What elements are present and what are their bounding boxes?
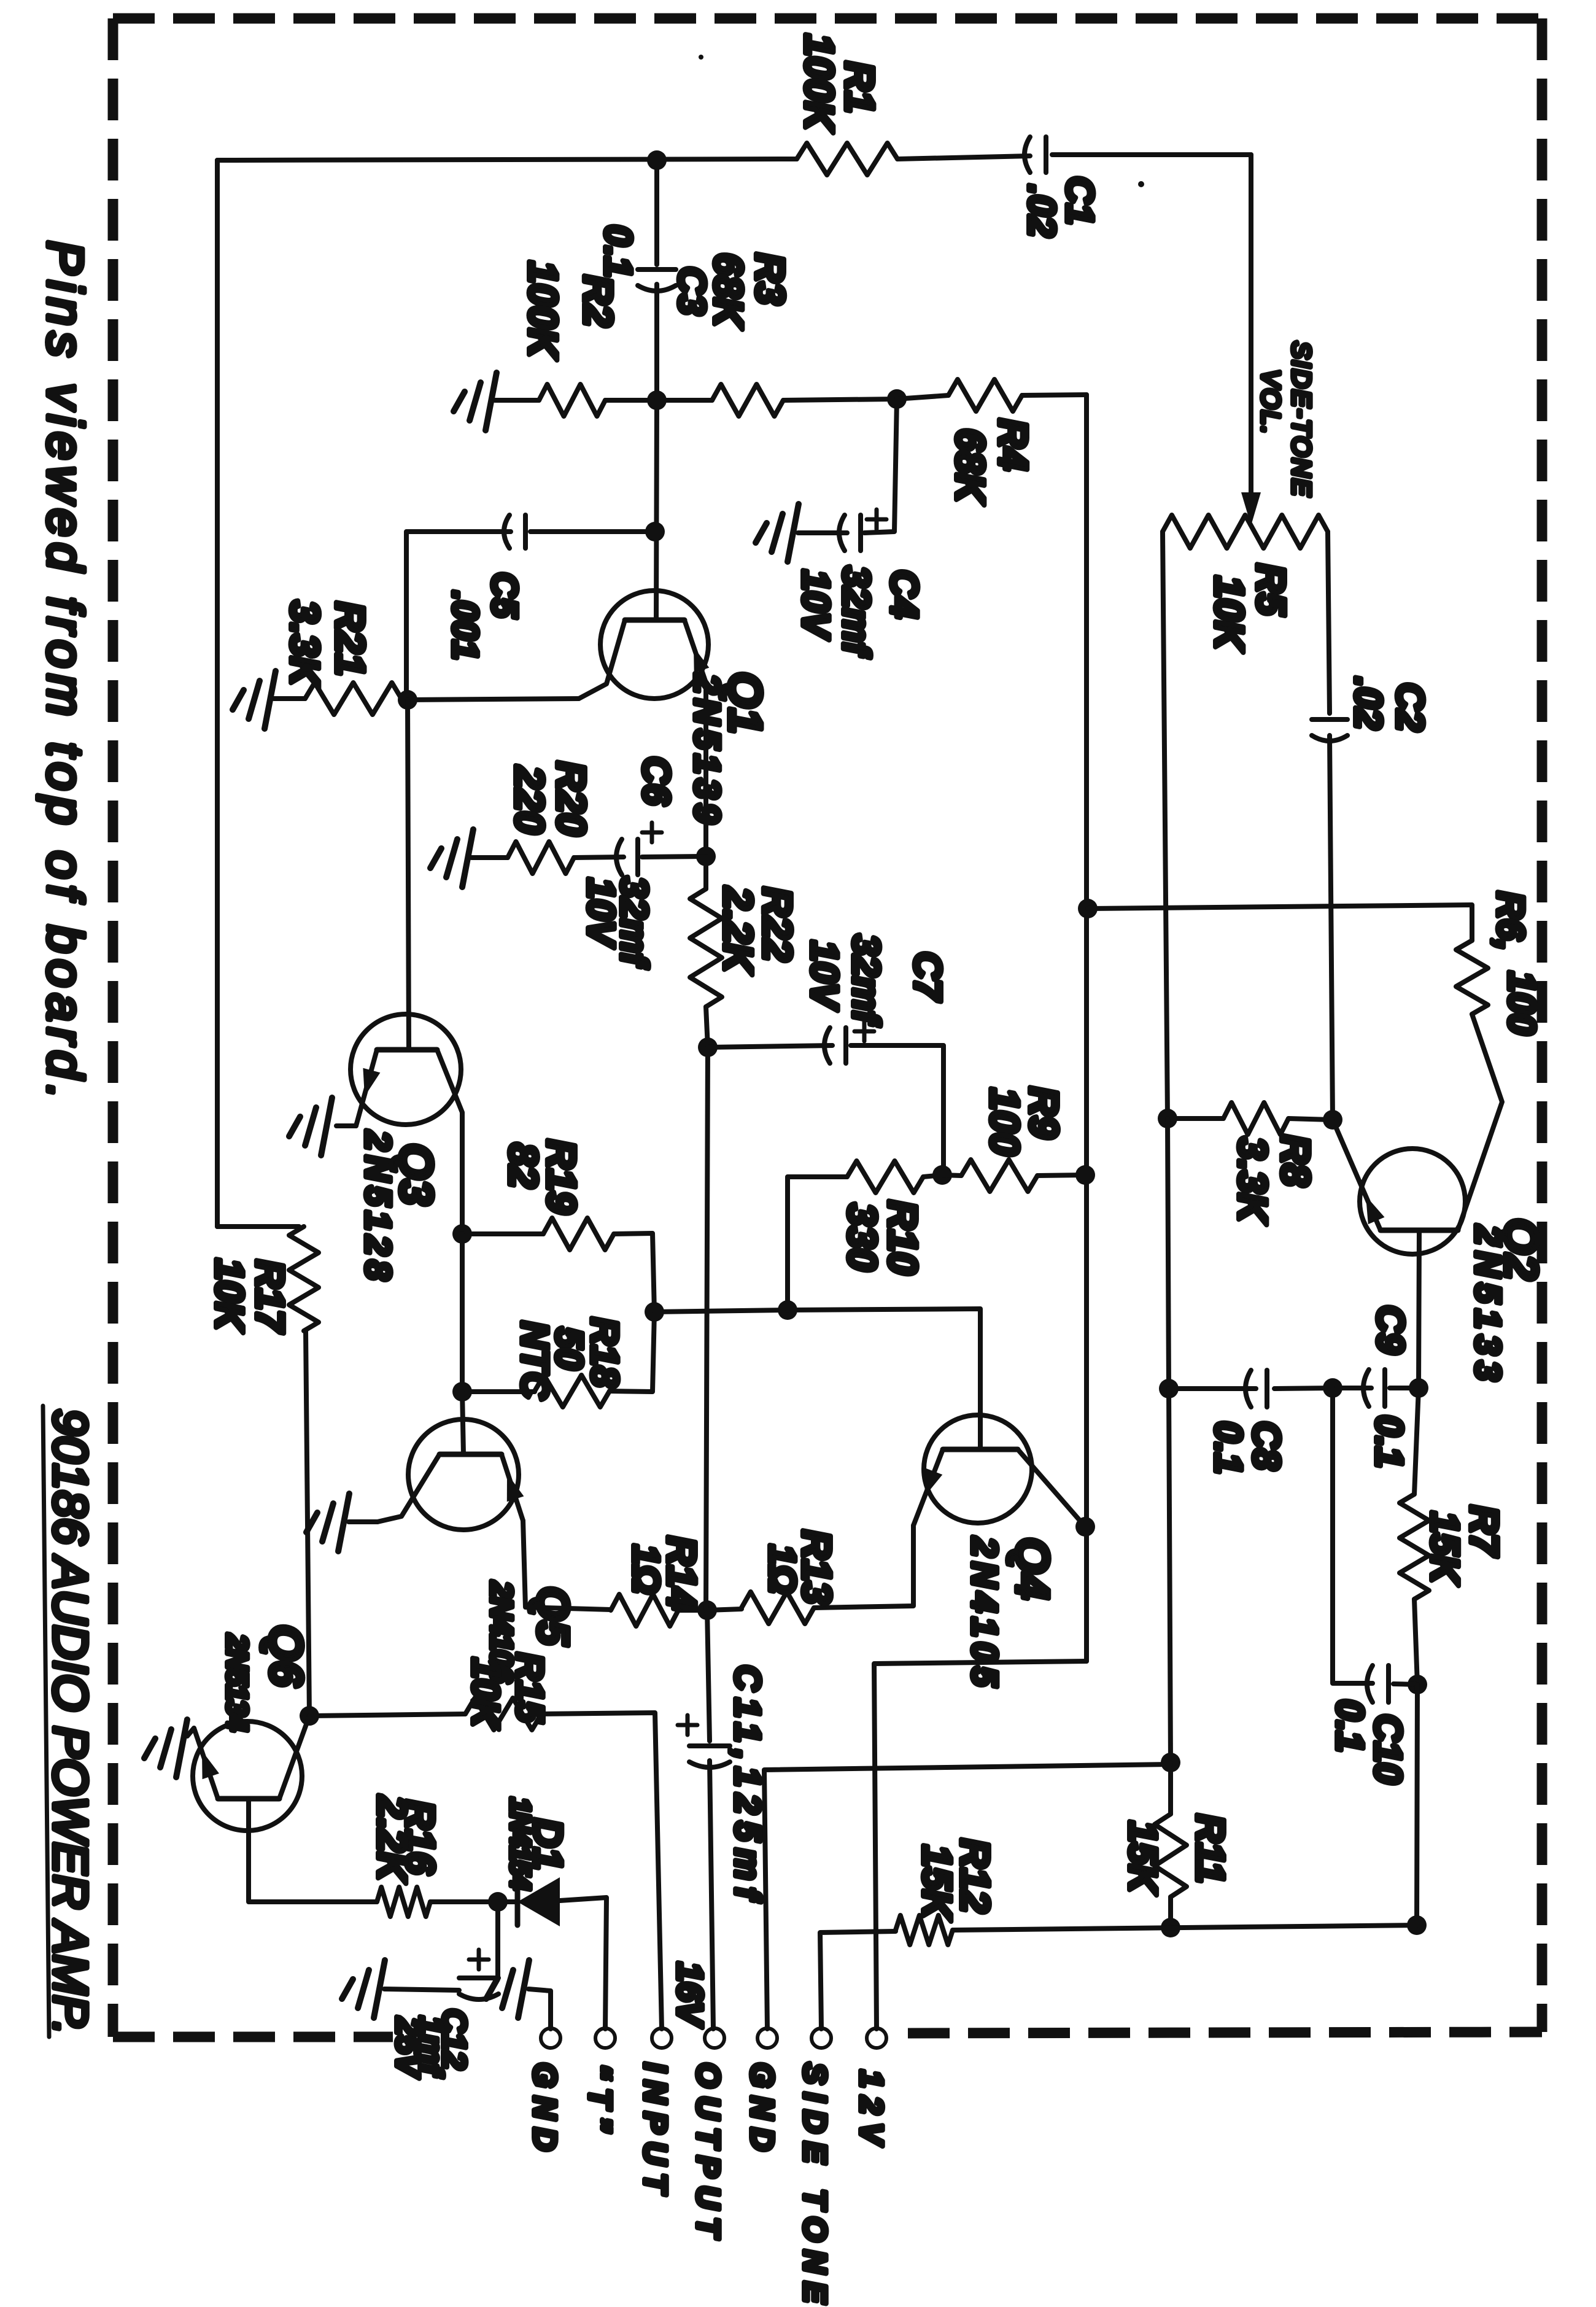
resistor R14 [611,1594,678,1626]
wire C7 to R9/R10 node [851,1045,943,1175]
svg-text:12V: 12V [853,2070,889,2153]
scan speck artifacts [1138,181,1144,187]
svg-text:32mf: 32mf [835,566,877,658]
svg-text:68K: 68K [948,428,993,505]
wire C11 line down from R13/R14 node [707,1610,710,1741]
node R3/R4 junction dot [887,389,907,409]
svg-text:90186 AUDIO POWER AMP.: 90186 AUDIO POWER AMP. [44,1409,98,2035]
svg-text:16V: 16V [670,1962,710,2028]
wire: Q3 base lead [408,700,409,1050]
wire R15 to INPUT riser [541,1713,662,2029]
capacitor C12 polarized [459,1975,498,1980]
svg-text:68K: 68K [706,253,751,330]
wire R17 down to Q6 collector node [306,1331,309,1716]
wire node to C5 [530,529,655,534]
wire C3 to R2/R3 node [654,284,659,400]
svg-text:NTC: NTC [513,1321,556,1400]
capacitor C10 [1367,1665,1373,1702]
node C9 right junction dot [1409,1378,1428,1398]
ground for R20 [462,829,473,887]
wire SIDE TONE riser to R12 row [820,1931,896,2029]
wire pot right end down to C2 [1328,532,1330,713]
svg-text:15K: 15K [1423,1511,1467,1586]
node C10 right junction dot [1408,1675,1427,1694]
node C6/R20 junction dot [696,847,716,866]
wire C12 to ground [384,1989,459,1990]
svg-text:GND: GND [527,2063,562,2160]
resistor R7 [1414,1388,1419,1494]
svg-text:0.1: 0.1 [1368,1415,1410,1468]
wire ground to R2 [495,398,539,403]
svg-text:R5: R5 [1249,564,1294,616]
node Q4 collector junction dot [1075,1517,1095,1537]
wire Q6 emitter to ground [187,1728,194,1736]
resistor R2 [539,384,605,416]
wire ground rail from R8 left down [1168,1119,1169,1389]
capacitor C5 branch node dot [645,522,665,541]
svg-text:OUTPUT: OUTPUT [690,2063,726,2246]
potentiometer R5 [1163,515,1328,548]
node R22/C7/input junction dot [698,1037,718,1057]
title underline [43,1406,49,2037]
transistor Q4 2N4105 [924,1415,1032,1523]
svg-text:2N4105: 2N4105 [964,1537,1004,1691]
node R18/R19 right junction dot [645,1302,664,1322]
capacitor C3 [638,267,676,272]
svg-text:.02: .02 [1020,184,1063,237]
resistor R18 NTC [462,1389,535,1394]
diode D1 1N4154 [515,1879,521,1925]
svg-text:10K: 10K [207,1258,252,1333]
terminal GND 2 [757,2028,777,2048]
node D1/R16/C12 junction dot [488,1892,508,1912]
dashed border frame (decorative) [113,18,1542,2037]
transistor Q2 2N5133 [1360,1149,1465,1254]
node R12 wire right junction dot [1407,1915,1427,1935]
svg-text:100K: 100K [521,261,566,360]
wire R10 riser [788,1177,847,1310]
svg-text:2N5134: 2N5134 [220,1634,253,1731]
wire R7/C10 line down to R12 wire [1417,1685,1417,1925]
node R8 left junction dot [1158,1109,1177,1128]
svg-text:1N4154: 1N4154 [505,1797,537,1890]
svg-text:Q4: Q4 [1006,1537,1058,1599]
ground for Q3 emitter [321,1098,332,1155]
resistor R3 [657,398,712,403]
resistor R4 [948,379,1022,411]
svg-text:C4: C4 [883,570,925,618]
wire: main top rail from corner to R1 [217,159,797,160]
resistor R10 [847,1161,923,1193]
wire: C3 branch down from node A [654,160,659,265]
wire: left rail down [215,160,220,1227]
svg-text:100: 100 [1500,971,1543,1034]
svg-text:C5: C5 [484,572,524,618]
svg-text:R2: R2 [576,275,621,327]
wire Q3 collector to Q5 base [460,1234,465,1392]
wire R15 row from Q6 node to INPUT corner [309,1714,465,1716]
capacitor C9 [1333,1386,1371,1390]
svg-text:2.2K: 2.2K [370,1794,415,1884]
svg-text:R17: R17 [248,1260,292,1334]
wire 12V riser [874,1661,1087,2029]
wire ground rail down to C10 corner [1169,1389,1171,1762]
node R18 left junction dot [452,1382,472,1402]
wire left rail corner to R17 [217,1224,299,1229]
sidetone wiper arrow [1241,492,1261,525]
wire from R1 to C1 [897,156,1030,159]
wire GND1 to chassis ground [529,1989,551,2029]
transistor Q3 2N5128 [351,1014,461,1125]
node C8 left junction dot [1159,1379,1179,1398]
svg-text:.02: .02 [1347,677,1389,729]
svg-text:220: 220 [507,765,552,834]
wire: 12V rail vertical [1084,395,1089,1661]
wire C2-line down to C10 [1333,1388,1373,1683]
svg-text:10V: 10V [579,878,622,948]
wire: R6 feed from 12V rail [1088,905,1472,940]
resistor R13 [707,1609,742,1610]
svg-text:100K: 100K [797,34,842,133]
wire R16 to D1 node [430,1899,498,1904]
svg-text:Pins viewed from top of board.: Pins viewed from top of board. [37,241,93,1105]
ground for GND1 terminal [518,1960,529,2018]
wire R4 to 12V rail corner [1022,395,1087,395]
wire ground to R20 [471,855,508,860]
svg-text:32mf: 32mf [845,934,887,1026]
wire R20 to C6 [574,857,624,858]
node R2/R3 junction dot [647,390,667,410]
wire R13 to Q4 emitter riser [814,1526,913,1608]
node R9/R10/C7 junction dot [932,1165,952,1185]
svg-text:R1: R1 [837,61,883,113]
wire R3 to R3/R4 node [783,399,897,400]
svg-text:SIDE-TONE: SIDE-TONE [1287,341,1316,498]
svg-text:R3: R3 [748,253,793,304]
ground for R21 [265,671,276,729]
wire GND2 riser and ground bus [764,1764,1171,2029]
terminal T [595,2028,615,2048]
node R11 bottom junction dot [1161,1918,1180,1937]
svg-text:C8: C8 [1245,1421,1287,1470]
resistor R12 [896,1915,953,1945]
svg-text:SIDE TONE: SIDE TONE [797,2063,832,2307]
svg-text:10V: 10V [794,570,837,640]
node R9/12V rail junction dot [1075,1165,1095,1185]
svg-text:C7: C7 [906,952,948,1002]
wire R6 to Q2 collector [1458,1014,1502,1230]
wire Q1 emitter down [703,683,708,856]
resistor R8 [1168,1116,1223,1121]
ground for Q5 emitter [338,1494,349,1551]
svg-text:.001: .001 [445,591,485,660]
svg-text:100: 100 [982,1088,1028,1155]
capacitor C1 [1025,137,1030,173]
terminal OUTPUT [705,2028,724,2048]
node C8/C9 junction dot [1323,1378,1342,1398]
svg-text:C6: C6 [635,756,677,805]
svg-text:3.3K: 3.3K [282,600,328,689]
svg-text:1Ω: 1Ω [626,1545,667,1594]
svg-text:C9: C9 [1369,1305,1411,1354]
wire node to Q1 collector [408,699,579,700]
wire ground to R21 [274,696,305,701]
capacitor C8 [1169,1386,1256,1391]
wire: Q1 base lead from R2/R3 node [656,400,657,620]
svg-text:10K: 10K [1207,576,1252,653]
svg-text:1Ω: 1Ω [762,1545,803,1594]
svg-text:C1: C1 [1058,176,1101,225]
svg-text:330: 330 [840,1203,885,1271]
terminal GND [541,2028,560,2048]
svg-text:R7: R7 [1462,1505,1506,1557]
svg-text:15K: 15K [915,1845,960,1921]
wire C12 riser [495,1902,500,1972]
wire pot left end down [1163,532,1168,1119]
resistor R9 [961,1160,1037,1192]
svg-text:“T”: “T” [582,2064,618,2141]
svg-text:0.1: 0.1 [1207,1421,1249,1474]
wire C5 to Q1 collector node [406,532,511,700]
svg-text:0.1: 0.1 [597,225,639,277]
resistor R21 [305,683,401,715]
svg-text:R11: R11 [1188,1814,1233,1883]
resistor R22 [703,856,708,889]
svg-text:VOL.: VOL. [1257,370,1285,436]
resistor R17 [289,1227,319,1331]
capacitor C11 polarized [689,1743,730,1748]
wire node to R4 [897,395,948,399]
svg-text:R4: R4 [991,419,1036,470]
node Q1 collector junction dot [398,690,417,710]
capacitor C7 polarized [824,1028,830,1063]
svg-text:R20: R20 [549,761,594,836]
wire C11 to OUTPUT terminal [710,1761,713,2029]
svg-text:R21: R21 [328,602,373,676]
svg-text:Q5: Q5 [528,1586,577,1646]
terminal SIDE TONE [812,2028,831,2048]
svg-text:GND: GND [744,2063,780,2160]
wire R12 to R11 bottom and R7 line [953,1925,1417,1930]
svg-text:82: 82 [501,1143,546,1188]
svg-text:0.1: 0.1 [1328,1699,1371,1752]
node Q6 collector junction dot [300,1706,319,1726]
transistor Q1 2N5139 [600,591,708,699]
svg-text:3.3K: 3.3K [1230,1137,1276,1225]
svg-text:2.2K: 2.2K [716,886,761,975]
svg-text:15K: 15K [1121,1821,1165,1896]
node R19 left junction dot [452,1224,472,1244]
svg-text:C10: C10 [1366,1714,1409,1784]
wire node to C7 [708,1045,832,1047]
ground for R2 [486,373,497,430]
ground for C12 [374,1960,385,2018]
wire C1 to sidetone pot corner [1052,152,1251,157]
wire C4 to ground [798,530,847,535]
ground for C4 [788,504,799,562]
resistor R11 [1168,1762,1173,1814]
node 12V/R4-R6 junction dot [1078,899,1098,918]
capacitor C4 polarized [839,515,845,551]
wire D1 anode to T corner [560,1898,606,2029]
capacitor C6 polarized [616,839,622,875]
svg-text:R22: R22 [755,887,800,961]
svg-text:10K: 10K [464,1658,506,1730]
resistor R1 [797,143,897,175]
capacitor C5 [504,515,509,548]
wire INPUT line from R22 node down [706,1047,708,1610]
transistor Q6 2N5134 [193,1721,302,1831]
terminal INPUT [652,2028,672,2048]
resistor R6 [1456,940,1488,1014]
resistor R19 [462,1231,543,1236]
svg-text:2N5128: 2N5128 [358,1130,398,1285]
wire Q5 emitter to ground [349,1519,378,1524]
terminal 12V [867,2028,886,2048]
wire Q5 base lead [462,1392,463,1454]
svg-text:25V: 25V [389,2017,426,2079]
transistor Q5 2N4106 [408,1419,519,1530]
svg-text:Q6: Q6 [260,1624,312,1687]
svg-text:2N5133: 2N5133 [1468,1225,1508,1387]
svg-text:INPUT: INPUT [637,2063,673,2201]
node R14/R13/C11 junction dot [697,1600,717,1620]
capacitor C2 [1312,717,1347,722]
svg-text:C2: C2 [1389,683,1431,731]
resistor R15 [465,1698,541,1730]
wire: sidetone wiper line down [1249,155,1253,496]
node A junction dot top [647,150,667,170]
svg-text:R8: R8 [1273,1134,1319,1187]
svg-text:R15: R15 [508,1653,551,1723]
ground for Q6 emitter [176,1720,187,1777]
resistor R16 [377,1887,430,1917]
svg-text:R6,: R6, [1489,891,1532,950]
svg-text:R10: R10 [880,1200,926,1274]
svg-text:10V: 10V [803,940,845,1011]
node R11 top junction dot [1161,1753,1180,1772]
node R10 riser junction dot [778,1300,797,1320]
wire Q2 base lead down [1419,1230,1419,1388]
svg-text:R9: R9 [1021,1087,1067,1139]
wire Q6 base lead down to R16 row [249,1799,377,1902]
resistor R20 [508,842,574,874]
svg-text:C11,125mf: C11,125mf [727,1665,767,1907]
wire Q3 emitter to ground [336,1123,356,1128]
wire R18/R19 node to Q4 base corner [654,1309,980,1449]
wire C2 down to R8 right node [1330,735,1333,1120]
node R8 right junction dot [1323,1110,1342,1130]
wire C6 to node [642,856,706,857]
wire Q5 collector down to R14 [523,1521,611,1610]
wire: C4 branch from R3/R4 node [864,399,897,533]
